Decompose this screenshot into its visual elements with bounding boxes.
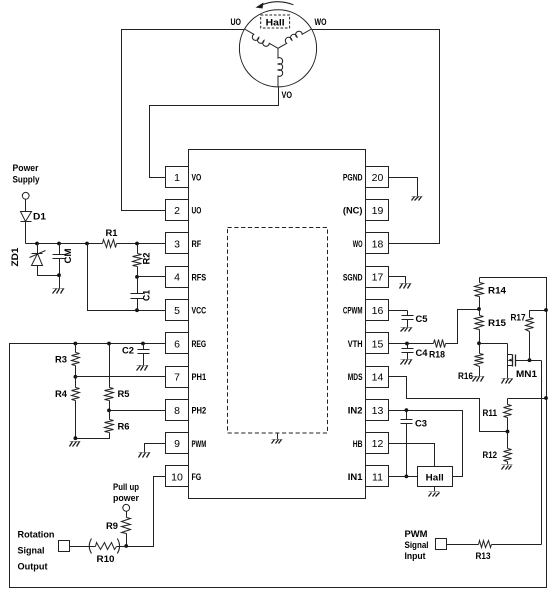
svg-text:18: 18 — [372, 238, 384, 250]
junction — [57, 242, 61, 246]
svg-text:R18: R18 — [429, 350, 445, 361]
svg-text:IN2: IN2 — [348, 406, 363, 417]
wire: R2/C1 node to pin 4 (RFS) — [138, 276, 166, 278]
wire pin 17 (SGND) to ground — [389, 277, 406, 284]
svg-text:HB: HB — [353, 439, 363, 450]
resistor R13 — [476, 541, 492, 563]
svg-text:Supply: Supply — [13, 175, 41, 186]
wire pin 10 (FG) to pull-up node — [127, 477, 166, 547]
resistor R15 — [475, 310, 507, 344]
svg-text:R5: R5 — [118, 389, 131, 400]
IC internal block (dashed) — [228, 228, 328, 434]
svg-text:16: 16 — [372, 305, 384, 317]
svg-text:MDS: MDS — [348, 372, 363, 383]
svg-text:RFS: RFS — [192, 272, 207, 283]
svg-text:C5: C5 — [416, 314, 429, 325]
svg-text:WO: WO — [315, 17, 327, 28]
capacitor CM — [53, 244, 75, 276]
capacitor C1 — [131, 277, 153, 311]
svg-text:5: 5 — [174, 305, 180, 317]
pin 8 (PH2) — [166, 400, 207, 421]
resistor R18 — [408, 340, 446, 361]
svg-text:PWM: PWM — [192, 439, 207, 450]
wire: power rail to pin 3 (RF) — [26, 243, 166, 245]
rotation arrow — [256, 2, 294, 9]
resistor R11 — [483, 399, 547, 432]
pin 18 (WO) — [353, 233, 389, 254]
wire WO: motor to pin 18 — [312, 30, 440, 244]
svg-text:FG: FG — [192, 472, 202, 483]
motor winding V — [278, 48, 283, 87]
svg-text:RF: RF — [192, 239, 202, 250]
svg-text:R2: R2 — [142, 253, 153, 265]
pin 20 (PGND) — [343, 167, 389, 188]
wire R18 to R14/R15 node — [446, 310, 480, 344]
svg-text:UO: UO — [231, 17, 242, 28]
resistor R3 — [55, 344, 80, 377]
svg-text:PGND: PGND — [343, 172, 363, 183]
svg-text:R6: R6 — [118, 422, 130, 433]
ground (SGND) — [400, 284, 412, 289]
svg-text:R17: R17 — [511, 313, 526, 324]
wire R13 to drain rail — [492, 544, 542, 546]
wire to ground — [59, 276, 61, 289]
pin 13 (IN2) — [348, 400, 389, 421]
pin 10 (FG) — [166, 466, 202, 487]
junction — [405, 342, 409, 346]
svg-text:PH2: PH2 — [192, 406, 207, 417]
pin 6 (REG) — [166, 333, 207, 354]
junction — [506, 430, 510, 434]
svg-text:Hall: Hall — [426, 473, 444, 484]
resistor R2 — [133, 244, 153, 277]
svg-text:power: power — [113, 493, 139, 504]
svg-text:R1: R1 — [106, 228, 119, 239]
terminal: PWM signal input — [436, 539, 447, 550]
motor winding U — [245, 29, 278, 48]
svg-text:C1: C1 — [142, 289, 153, 301]
svg-text:R16: R16 — [458, 371, 473, 382]
wire: R3/R4 node to pin 7 (PH1) — [76, 376, 166, 378]
svg-text:C4: C4 — [416, 348, 429, 359]
wire pin 16 (CPWM) — [389, 310, 408, 312]
junction — [107, 342, 111, 346]
ground (PWM pin) — [139, 453, 151, 458]
wire pin 15 (VTH) — [389, 343, 408, 345]
wire UO: motor to pin 2 — [122, 30, 245, 211]
resistor R14 — [475, 278, 507, 310]
junction — [74, 375, 78, 379]
svg-text:Input: Input — [405, 551, 427, 562]
junction — [141, 342, 145, 346]
junction — [85, 242, 89, 246]
svg-text:R11: R11 — [483, 408, 498, 419]
pin 11 (IN1) — [348, 466, 389, 487]
junction — [405, 475, 409, 479]
svg-text:9: 9 — [174, 438, 180, 450]
svg-text:R10: R10 — [97, 554, 115, 565]
wire pin 13 (IN2) to hall sensor — [389, 411, 463, 477]
resistor R6 — [76, 411, 130, 439]
junction — [135, 275, 139, 279]
junction — [35, 242, 39, 246]
junction — [57, 273, 61, 277]
svg-text:VCC: VCC — [192, 306, 207, 317]
label Pull up power — [113, 482, 139, 504]
svg-text:WO: WO — [353, 239, 363, 250]
svg-text:11: 11 — [372, 472, 383, 484]
terminal: power supply input — [22, 192, 29, 199]
wire pin 9 (PWM) to ground — [145, 444, 166, 453]
svg-text:4: 4 — [174, 272, 180, 284]
pin 17 (SGND) — [343, 267, 389, 288]
wire gate: R15/R16 node to MN1 — [480, 343, 508, 345]
svg-text:C2: C2 — [122, 346, 134, 357]
ground (R4/R6) — [70, 442, 81, 447]
pin 15 (VTH) — [348, 333, 389, 354]
svg-text:SGND: SGND — [343, 272, 363, 283]
capacitor C4 — [402, 344, 429, 360]
pin 12 (HB) — [353, 433, 389, 454]
svg-text:17: 17 — [372, 272, 384, 284]
resistor R12 — [483, 432, 512, 465]
pin 2 (UO) — [166, 200, 202, 221]
junction — [405, 408, 409, 412]
svg-text:VO: VO — [282, 90, 293, 101]
motor M (3-phase) — [239, 10, 316, 87]
pin 14 (MDS) — [348, 367, 389, 388]
label Power Supply — [13, 163, 41, 186]
wire VCC branch: rail to pin 5 — [88, 244, 166, 311]
pin 16 (CPWM) — [343, 300, 389, 321]
junction — [124, 544, 128, 548]
svg-text:7: 7 — [174, 372, 180, 384]
svg-text:R13: R13 — [476, 551, 491, 562]
junction — [74, 342, 78, 346]
svg-text:Hall: Hall — [266, 18, 285, 28]
ground (R12) — [502, 465, 513, 470]
wire D1 to power rail — [25, 222, 27, 244]
resistor R1 — [103, 228, 119, 248]
svg-text:C3: C3 — [415, 419, 427, 430]
ground (MN1 source) — [502, 379, 513, 384]
motor winding W — [278, 29, 311, 48]
resistor R5 — [105, 344, 131, 411]
wire drain rail down to R13 — [541, 361, 543, 545]
resistor R16 — [458, 344, 484, 383]
wire REG net: pin 6 loop to right rail — [10, 278, 547, 588]
svg-text:(NC): (NC) — [343, 206, 363, 217]
ground (C2) — [137, 366, 149, 371]
pin 9 (PWM) — [166, 433, 207, 454]
pin 4 (RFS) — [166, 267, 207, 288]
svg-text:PWM: PWM — [405, 529, 428, 540]
junction — [107, 409, 111, 413]
capacitor C5 — [402, 311, 429, 328]
svg-text:R12: R12 — [483, 450, 498, 461]
svg-text:R15: R15 — [488, 318, 507, 329]
svg-text:ZD1: ZD1 — [10, 247, 21, 267]
svg-text:8: 8 — [174, 405, 180, 417]
terminal: rotation signal output — [59, 541, 70, 552]
hall element in motor — [261, 15, 290, 28]
junction — [477, 307, 481, 311]
pin 5 (VCC) — [166, 300, 207, 321]
junction — [135, 308, 139, 312]
ground (R16) — [473, 377, 485, 382]
wire PWM input to R13 — [447, 544, 479, 546]
svg-text:3: 3 — [174, 238, 180, 250]
capacitor C3 — [401, 411, 428, 477]
svg-text:MN1: MN1 — [516, 369, 538, 380]
ground (C4) — [401, 360, 413, 365]
junction — [477, 341, 481, 345]
svg-text:CPWM: CPWM — [343, 306, 363, 317]
svg-text:PH1: PH1 — [192, 372, 207, 383]
ground (IC internal) — [272, 434, 283, 444]
svg-text:19: 19 — [372, 205, 384, 217]
junction — [544, 396, 548, 400]
svg-text:R4: R4 — [55, 389, 68, 400]
ground (C5) — [401, 328, 413, 332]
svg-text:D1: D1 — [33, 212, 47, 223]
label PWM Signal Input — [405, 529, 429, 562]
junction — [135, 242, 139, 246]
IC U1 body — [189, 150, 366, 499]
svg-text:REG: REG — [192, 339, 207, 350]
wire VO: motor to pin 1 — [150, 87, 279, 178]
wire: R5/R6 node to pin 8 (PH2) — [110, 410, 166, 412]
resistor R10 (optional, in parentheses) — [89, 539, 119, 566]
ground (hall sensor) — [429, 487, 440, 497]
svg-text:14: 14 — [372, 372, 384, 384]
resistor R17 — [511, 311, 547, 361]
svg-text:Signal: Signal — [18, 546, 45, 557]
svg-text:IN1: IN1 — [348, 472, 363, 483]
wire terminal to D1 — [25, 200, 27, 212]
junction — [528, 358, 532, 362]
svg-text:15: 15 — [372, 338, 384, 350]
transistor MN1 (N-ch MOSFET) — [508, 344, 542, 381]
svg-text:20: 20 — [372, 172, 384, 184]
wire pin 14 (MDS) to R11/R12 node — [389, 377, 508, 432]
svg-text:CM: CM — [63, 248, 74, 263]
svg-text:10: 10 — [171, 472, 183, 484]
label Rotation Signal Output — [18, 530, 55, 573]
svg-text:Output: Output — [18, 562, 49, 573]
zener diode ZD1 — [10, 244, 60, 276]
junction — [544, 308, 548, 312]
wire pin 11 (IN1) to hall sensor — [389, 476, 418, 478]
pin 7 (PH1) — [166, 367, 207, 388]
wire pin 12 (HB) to hall sensor top — [389, 444, 435, 467]
wire pin 20 (PGND) to ground — [389, 178, 418, 197]
capacitor C2 — [122, 344, 150, 366]
svg-text:Signal: Signal — [405, 540, 429, 551]
svg-text:6: 6 — [174, 338, 180, 350]
svg-text:1: 1 — [174, 172, 180, 184]
svg-text:VTH: VTH — [348, 339, 363, 350]
svg-text:2: 2 — [174, 205, 180, 217]
resistor R4 — [55, 377, 80, 439]
hall sensor IC — [418, 467, 453, 487]
svg-text:Rotation: Rotation — [18, 530, 55, 541]
svg-text:R14: R14 — [488, 286, 507, 297]
svg-text:Pull up: Pull up — [113, 482, 139, 493]
svg-text:VO: VO — [192, 172, 202, 183]
svg-text:UO: UO — [192, 206, 202, 217]
pin 1 (VO) — [166, 167, 202, 188]
ground (power input) — [53, 289, 65, 294]
svg-text:R3: R3 — [55, 355, 67, 366]
junction — [74, 436, 78, 440]
svg-text:12: 12 — [372, 438, 384, 450]
pin 19 ((NC)) — [343, 200, 389, 221]
terminal: pull up power — [123, 504, 130, 511]
pin 3 (RF) — [166, 233, 202, 254]
wire R10 to output terminal — [70, 546, 127, 548]
resistor R9 — [106, 512, 131, 547]
diode D1 — [21, 212, 47, 223]
svg-text:13: 13 — [372, 405, 384, 417]
svg-text:R9: R9 — [106, 521, 118, 532]
svg-text:Power: Power — [13, 163, 39, 174]
ground (PGND) — [412, 197, 423, 201]
